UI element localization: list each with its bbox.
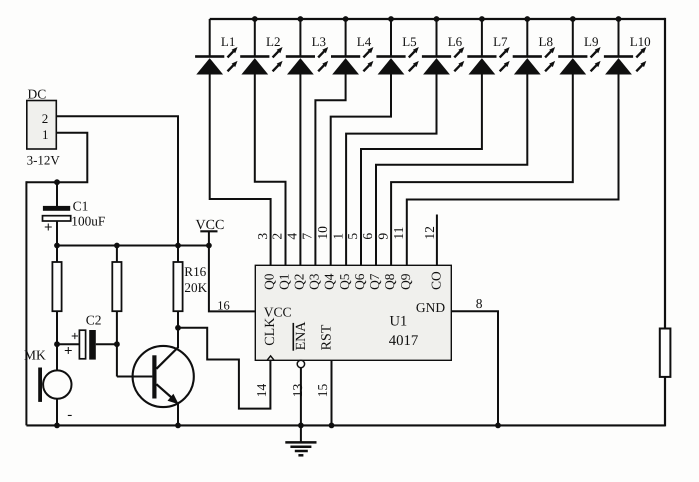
wire: DC pin 2 to VCC rail (56, 116, 178, 245)
node: bottom rail junction (175, 423, 181, 429)
svg-text:GND: GND (416, 300, 445, 315)
svg-text:VCC: VCC (196, 218, 225, 233)
resistor R16 (173, 262, 182, 311)
node: junction C2 right on base line (114, 341, 120, 347)
LED L7 (467, 19, 509, 75)
node: collector junction with R16 (175, 325, 181, 331)
wire: emitter to bottom rail (177, 404, 179, 426)
svg-text:R16: R16 (184, 264, 206, 279)
svg-text:Q5: Q5 (337, 273, 352, 290)
svg-text:L10: L10 (630, 34, 651, 49)
svg-text:13: 13 (290, 384, 305, 398)
wire: L1 anode to 4017 pin 3 (210, 75, 271, 266)
wire: VCC to pin 16 of U1 (209, 246, 256, 312)
node: junction C2 left (54, 341, 60, 347)
svg-text:1: 1 (330, 233, 345, 240)
svg-text:4: 4 (285, 233, 300, 240)
ground symbol (300, 425, 302, 442)
svg-text:RST: RST (319, 324, 334, 350)
svg-text:L5: L5 (402, 34, 416, 49)
svg-text:C1: C1 (73, 199, 89, 214)
svg-text:Q4: Q4 (322, 273, 337, 290)
wire: GND pin 8 to bottom rail (451, 311, 498, 425)
svg-text:6: 6 (360, 233, 375, 240)
svg-text:2: 2 (42, 111, 49, 126)
svg-text:3-12V: 3-12V (27, 152, 61, 167)
svg-text:L6: L6 (448, 34, 463, 49)
node: bus junction at L10 (616, 16, 622, 22)
LED L5 (376, 19, 418, 75)
resistor R17 (LED common cathode) (660, 329, 671, 377)
svg-text:16: 16 (217, 299, 230, 313)
svg-text:2: 2 (270, 233, 285, 240)
wire: right-side vertical from bus to R17 (664, 18, 666, 329)
LED L1 (195, 19, 237, 75)
svg-text:L4: L4 (357, 34, 372, 49)
svg-text:MK: MK (24, 348, 46, 363)
LED L4 (331, 19, 373, 75)
node: bottom rail junction (495, 423, 501, 429)
wire: base wire to Q1 (117, 376, 152, 378)
wire: DC pin 1 to ground left rail (26, 133, 87, 183)
svg-text:Q7: Q7 (367, 273, 382, 290)
svg-text:100uF: 100uF (71, 213, 105, 228)
wire: bottom ground rail (26, 424, 665, 426)
wire: C2 right lead (96, 343, 117, 345)
node: VCC rail junction (175, 243, 181, 249)
wire: junction to C1 (56, 182, 58, 206)
node: bus junction at L2 (252, 16, 258, 22)
power symbol VCC (200, 230, 217, 232)
capacitor C1 negative plate (43, 216, 71, 221)
microphone MK electret capsule (43, 370, 71, 398)
node: bus junction at L3 (298, 16, 304, 22)
svg-text:DC: DC (28, 87, 47, 102)
node: bus junction at L4 (343, 16, 349, 22)
wire: L6 anode to 4017 pin 1 (346, 75, 436, 266)
wire: C2 left lead (57, 343, 80, 345)
svg-text:Q1: Q1 (277, 274, 292, 290)
node: bottom rail junction (329, 423, 335, 429)
capacitor C1 positive plate (43, 206, 70, 211)
svg-text:Q0: Q0 (262, 273, 277, 290)
svg-text:4017: 4017 (389, 333, 419, 349)
transistor Q1 NPN (133, 346, 194, 407)
LED L8 (513, 19, 555, 75)
wire: L9 anode to 4017 pin 9 (391, 75, 573, 266)
svg-text:VCC: VCC (264, 304, 292, 319)
node: bus junction at L7 (479, 16, 485, 22)
wire: R17 to bottom rail (664, 377, 666, 427)
capacitor C2 left plate (79, 330, 85, 359)
LED L9 (558, 19, 600, 75)
svg-text:11: 11 (391, 227, 406, 240)
svg-text:L3: L3 (312, 34, 326, 49)
svg-text:-: - (67, 407, 72, 423)
connector DC power jack (27, 101, 57, 150)
wire: C1 to VCC rail (56, 221, 58, 245)
svg-text:CO: CO (428, 271, 443, 290)
wire: left ground rail (25, 181, 27, 425)
svg-text:Q9: Q9 (398, 273, 413, 290)
svg-text:15: 15 (315, 384, 330, 398)
svg-text:20K: 20K (184, 280, 207, 295)
transistor Q1 collector stroke (156, 347, 178, 369)
inversion bubble on ENA pin (297, 360, 304, 367)
svg-text:8: 8 (476, 296, 483, 311)
node: bottom rail junction (54, 423, 60, 429)
node: VCC rail junction (114, 243, 120, 249)
node: bus junction at L6 (434, 16, 440, 22)
wire: collector node to CLK pin of U1 (178, 328, 270, 409)
wire: L8 anode to 4017 pin 6 (376, 75, 527, 266)
wire: collector to node (177, 328, 179, 348)
svg-text:C2: C2 (86, 313, 102, 328)
svg-text:Q2: Q2 (291, 274, 306, 290)
wire: L10 anode to 4017 pin 11 (407, 75, 619, 266)
svg-text:12: 12 (422, 226, 437, 240)
svg-text:3: 3 (255, 233, 270, 240)
svg-text:5: 5 (345, 233, 360, 240)
LED L10 (604, 19, 646, 75)
node: junction C1 top (54, 179, 60, 185)
wire: L7 anode to 4017 pin 5 (361, 75, 482, 266)
node: VCC rail junction (54, 243, 60, 249)
svg-text:U1: U1 (390, 314, 408, 330)
svg-text:L1: L1 (221, 34, 235, 49)
svg-text:7: 7 (300, 233, 315, 240)
LED L2 (240, 19, 282, 75)
resistor R15 (base bias) (112, 262, 121, 311)
svg-text:Q3: Q3 (306, 273, 321, 290)
wire: RST to bottom rail (331, 360, 333, 425)
wire: mic to bottom rail (56, 399, 58, 426)
node: bus junction at L5 (388, 16, 394, 22)
svg-text:Q8: Q8 (382, 273, 397, 290)
svg-text:+: + (64, 344, 73, 360)
wire: CO pin 12 stub (unconnected) (436, 215, 438, 266)
wire: LED cathode top bus (210, 18, 665, 20)
wire: L4 anode to 4017 pin 7 (315, 75, 345, 266)
wire: VCC rail (56, 245, 209, 247)
wire: L2 anode to 4017 pin 2 (255, 75, 286, 266)
svg-text:CLK: CLK (263, 318, 278, 346)
capacitor C2 right plate (89, 330, 96, 360)
svg-text:10: 10 (315, 226, 330, 240)
op-amp U1 4017 IC body (255, 265, 451, 360)
svg-text:14: 14 (254, 384, 269, 398)
svg-text:ENA: ENA (294, 321, 309, 351)
LED L3 (286, 19, 328, 75)
node: bottom rail junction (298, 423, 304, 429)
svg-text:+: + (44, 220, 53, 236)
svg-text:+: + (71, 328, 79, 343)
node: VCC rail junction (206, 243, 212, 249)
svg-text:L8: L8 (539, 34, 553, 49)
wire: ENA to bottom rail (300, 368, 302, 426)
svg-text:L7: L7 (493, 34, 508, 49)
node: bus junction at L8 (524, 16, 530, 22)
svg-text:Q6: Q6 (352, 273, 367, 290)
svg-text:9: 9 (375, 233, 390, 240)
wire: L3 anode to 4017 pin 4 (299, 75, 301, 266)
resistor R14 (mic bias) (52, 262, 61, 311)
wire: L5 anode to 4017 pin 10 (331, 75, 391, 266)
node: bus junction at L9 (570, 16, 576, 22)
transistor Q1 emitter stroke with arrow (156, 384, 175, 401)
clock input chevron (267, 356, 274, 360)
svg-text:1: 1 (42, 127, 49, 142)
LED L6 (422, 19, 464, 75)
svg-text:L2: L2 (266, 34, 280, 49)
svg-text:L9: L9 (584, 34, 598, 49)
